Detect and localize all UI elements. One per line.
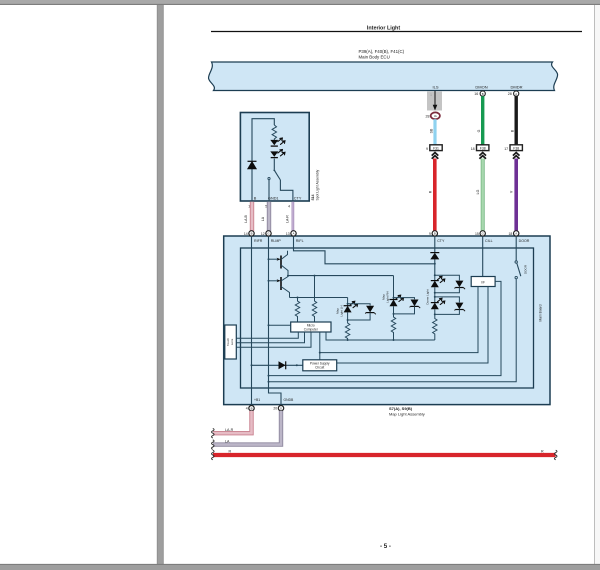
svg-text:LA-R: LA-R [225,428,234,432]
junction chevrons DMON [479,153,486,159]
wire RIFR / +B1 vertical [251,236,253,405]
resistor R4 (RH) [391,314,395,340]
svg-text:A: A [515,232,517,236]
wire RIFL routing [294,236,435,264]
left page (blank) [0,5,157,564]
continuation squiggle R right [554,450,557,460]
wire V (purple) to DOOR [514,159,518,231]
bus E lower to I/F right [268,281,502,376]
svg-text:F31: F31 [433,147,439,151]
svg-text:Spot Light Assembly: Spot Light Assembly [315,169,319,200]
svg-text:Light RH: Light RH [385,291,389,303]
map light assembly S7/S9 outer box [224,236,550,405]
wire R (red bus) [213,453,556,457]
wire B (black) DMDR [515,96,518,145]
junction chevrons DMDR [513,153,520,159]
wire feed to Map Light LH (y=297.5) [290,297,348,299]
svg-text:Interior Light: Interior Light [367,26,400,32]
svg-text:S7(A), S9(B): S7(A), S9(B) [389,406,413,411]
svg-text:RIFR: RIFR [254,239,263,243]
junction chevrons ILS [432,153,439,159]
ECU label P39(A), F40(B), F41(C) / Main Body ECU [359,49,405,59]
title Interior Light [211,26,582,32]
svg-text:LG: LG [476,189,480,194]
svg-text:DOOR: DOOR [524,264,528,274]
svg-text:+B1: +B1 [254,398,260,402]
wire LG (pale green) to CILL [481,159,485,231]
svg-text:12: 12 [261,232,265,236]
svg-text:Computer: Computer [304,327,319,331]
main board inner box [241,248,534,388]
transistor Q2 [268,276,290,298]
wire MC to power supply [319,332,321,360]
svg-text:13: 13 [286,232,290,236]
continuation squiggle R left [212,450,215,460]
resistor R-spot [272,125,276,141]
diode D1 (on B line) [248,161,257,169]
svg-text:SB: SB [430,128,434,133]
bottom chrome [0,563,600,565]
connector IA (28) ellipse [426,112,440,119]
page divider strip [157,5,164,564]
bus F lower to door switch [268,279,517,383]
svg-text:P39(A), F40(B), F41(C): P39(A), F40(B), F41(C) [359,49,405,54]
power supply circuit U3 [303,360,337,371]
wires touch lens to micro computer [236,332,311,347]
shielded section at ILS output [427,92,442,111]
spot light assembly S14 box [240,113,309,202]
svg-text:LA-B: LA-B [244,214,248,222]
connector circle at DMON band pin (16) [474,91,485,96]
wire feed to Map Light RH (y=275.6) [287,275,394,277]
svg-text:18: 18 [471,147,475,151]
svg-text:IA: IA [434,114,437,118]
svg-text:B: B [251,232,253,236]
wire ILS lead with arrow [433,91,438,111]
LED D3 (spot) [270,150,285,158]
resistor R1 [295,298,299,323]
svg-text:Lens: Lens [230,338,234,345]
svg-text:15: 15 [475,232,479,236]
svg-text:- 5 -: - 5 - [380,543,391,550]
svg-text:Circuit: Circuit [315,366,324,370]
wire GND1 stub [268,180,270,201]
svg-text:CTY: CTY [437,239,445,243]
wire SB (sky blue) ILS [433,119,436,145]
diode D5 on CTY line [430,253,439,265]
svg-text:G: G [280,407,282,411]
svg-text:28: 28 [508,92,512,96]
resistor R3 (LH) [345,320,349,340]
LED dome light pair 1 [425,274,465,304]
LED map light LH [336,298,376,322]
svg-text:Main Body ECU: Main Body ECU [359,54,390,59]
svg-text:R: R [541,450,544,454]
svg-text:RLMP: RLMP [271,239,282,243]
touch lens sensor [225,325,237,359]
svg-text:4: 4 [288,204,290,208]
svg-text:RIFL: RIFL [296,239,304,243]
resistor R2 [312,276,316,322]
svg-text:G: G [477,129,481,132]
right page [164,5,595,564]
svg-text:DOOR: DOOR [519,239,530,243]
continuation squiggle LA-R [212,428,215,438]
svg-text:4: 4 [246,407,248,411]
svg-text:B: B [254,197,257,201]
wire switch to CTY pin [280,180,293,201]
wire B internal [252,119,274,201]
continuation squiggle LA [212,440,215,450]
svg-text:I/F: I/F [481,280,485,284]
svg-text:F38: F38 [513,147,519,151]
bottom pin +B1 [246,398,261,411]
svg-text:LA: LA [261,216,265,221]
micro computer U2 [268,322,332,332]
transistor Q1 [268,251,289,276]
svg-text:G: G [267,232,269,236]
bus A: LED returns [326,332,435,341]
wire CTY vertical [434,236,436,253]
svg-text:20: 20 [273,407,277,411]
wire CILL vertical [482,236,484,277]
svg-text:28: 28 [426,114,430,118]
svg-text:B: B [482,92,484,96]
LED dome light pair 2 [431,293,465,316]
top chrome bar [0,0,600,4]
svg-text:18: 18 [509,232,513,236]
wire RLMP / GND vertical [269,236,282,406]
svg-text:Main Board: Main Board [539,304,543,321]
resistor R5 (dome) [433,314,437,340]
svg-text:F38: F38 [480,147,486,151]
wire LA-R (pink) from +B1 [213,411,252,433]
top pin circles right: 9(B) 15(G) 18(A) [429,231,437,236]
switch SW1 (spot) [268,169,281,180]
bottom pin GNDB [273,398,294,411]
svg-text:B: B [434,232,436,236]
svg-text:B: B [251,407,253,411]
right page edge line [594,5,596,564]
svg-text:A: A [293,232,295,236]
svg-text:LA-R: LA-R [286,215,290,223]
svg-text:17: 17 [504,147,508,151]
svg-text:Map Light Assembly: Map Light Assembly [389,411,425,416]
svg-text:GND1: GND1 [268,197,279,201]
I/F interface U4 [471,277,495,287]
connector F38 (DMDR) [504,145,522,151]
svg-text:9: 9 [429,232,431,236]
LED map light RH [382,276,421,315]
door switch SW2 [515,261,528,279]
connector circle at DMDR band pin (28) [508,91,519,96]
svg-text:ILS: ILS [432,85,438,90]
wire LA-B (pink) [250,202,254,231]
top pin circles left: 14(B) 12(G) 13(A) [244,231,254,236]
svg-text:LA: LA [225,440,230,444]
LED D2 (spot) [270,138,285,146]
svg-text:R: R [229,450,232,454]
svg-text:Dome Light: Dome Light [425,289,429,305]
svg-text:Light LH: Light LH [339,305,343,316]
connector F38 (DMON) [471,145,489,151]
svg-text:16: 16 [474,92,478,96]
right margin sliver [595,5,600,564]
svg-text:9: 9 [426,147,428,151]
wire G (green) DMON [481,96,484,145]
bus D power supply right to I/F [337,287,488,364]
bus C from power supply to I/F [320,287,478,353]
op: Main Body ECU band U1 [209,62,558,91]
wire LA (gray) [267,202,271,231]
svg-text:G: G [482,232,484,236]
svg-text:DMDR: DMDR [511,85,523,90]
svg-text:GNDB: GNDB [284,398,295,402]
wire LA-R (thin lavender) [292,202,295,231]
wire R (red) to CTY [433,159,437,231]
connector F31 [426,145,442,151]
wire LA (gray) from GNDB [213,411,281,445]
svg-text:CILL: CILL [485,239,493,243]
svg-text:DMON: DMON [475,85,487,90]
diode D4 to power supply [251,361,303,369]
svg-text:14: 14 [244,232,248,236]
wire DOOR vertical to switch [515,236,517,261]
wire LED to switch [273,159,275,170]
svg-text:A: A [515,92,517,96]
svg-text:CTY: CTY [294,197,302,201]
